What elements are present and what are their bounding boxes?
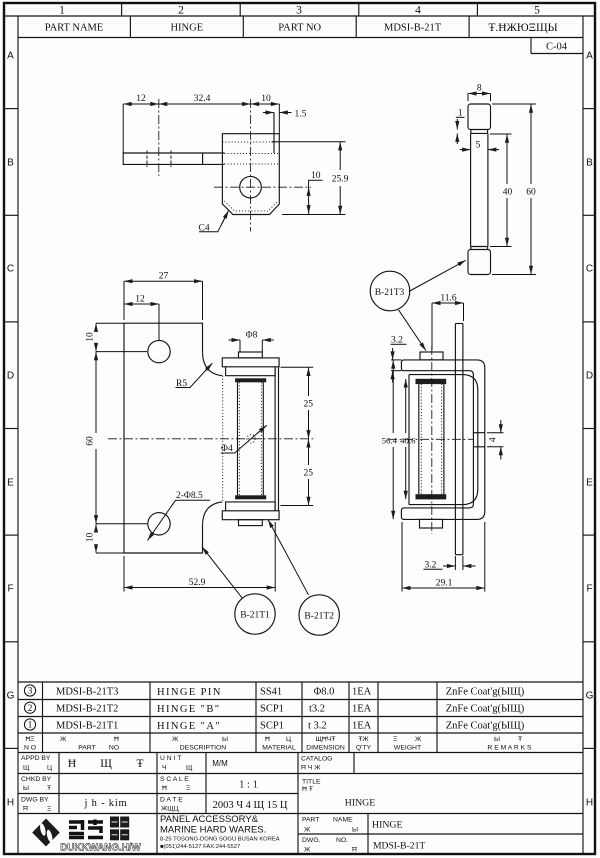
svg-text:ZnFe Coat'g(ЫЩ): ZnFe Coat'g(ЫЩ) [446,704,525,715]
svg-text:Ħ: Ħ [114,736,119,743]
dim 10 vertical (hole to bottom) [309,180,323,214]
svg-text:TITLE: TITLE [302,779,321,786]
dim 8 [467,94,469,102]
svg-text:DWG BY: DWG BY [21,797,49,804]
svg-text:CHKD BY: CHKD BY [21,776,52,783]
svg-text:F: F [7,584,13,595]
pin lower end side [420,519,443,528]
svg-text:25: 25 [304,400,314,410]
svg-text:PART NO: PART NO [278,23,321,34]
dim 3.2 top [391,359,401,361]
svg-text:E: E [7,478,14,489]
svg-text:Ч: Ч [162,765,167,772]
bottom hole ext line [96,523,147,525]
plate outline with chamfers [222,134,279,215]
svg-text:NO.: NO. [336,837,348,844]
svg-text:Ħ: Ħ [265,736,270,743]
knuckle tube walls [237,382,239,495]
leaf bend hidden line [222,376,224,502]
svg-text:D A T E: D A T E [160,797,183,804]
column ticks top strip [121,3,123,16]
pin head front [239,352,263,358]
svg-text:DIMENSION: DIMENSION [306,745,345,752]
row letters left [7,51,15,809]
svg-text:1.5: 1.5 [295,110,307,120]
dim 10 right ext line [278,104,280,134]
dim line 25.9 [339,142,341,170]
svg-text:C: C [7,264,14,275]
svg-text:NAME: NAME [333,817,353,824]
leaf outer edge left [408,375,410,505]
svg-text:29.1: 29.1 [436,579,453,589]
dim line 12 [123,103,159,105]
svg-text:Ж: Ж [304,827,311,834]
svg-text:52.9: 52.9 [189,578,206,588]
svg-text:NO: NO [109,745,119,752]
svg-text:4: 4 [415,5,421,17]
dim line 32.4 [159,103,251,105]
circled item numbers [24,685,35,696]
svg-text:8-25 TOSONG-DONG SOGU BUSAN KO: 8-25 TOSONG-DONG SOGU BUSAN KOREA [160,837,280,843]
hinge centerline [108,438,313,440]
svg-text:t3.2: t3.2 [309,704,325,715]
svg-text:PART: PART [78,745,96,752]
company logo diamond [32,819,60,847]
svg-text:8: 8 [477,84,482,94]
svg-text:ĦΞ: ĦΞ [25,736,35,743]
svg-text:ŦЖ: ŦЖ [358,736,369,743]
balloon B-21T1 [235,594,275,634]
svg-text:12: 12 [136,94,146,104]
dim 12 [124,303,159,305]
svg-text:10: 10 [86,533,96,543]
hinge B flange bottom [222,511,279,520]
svg-text:D: D [7,371,14,382]
svg-text:C: C [586,264,593,275]
dim 56.4 [392,360,394,433]
svg-text:MDSI-B-21T: MDSI-B-21T [373,841,425,852]
bend line solid at 1.5 offset [273,113,275,154]
svg-text:MDSI-B-21T: MDSI-B-21T [384,23,442,34]
svg-text:Ξ: Ξ [47,806,52,813]
svg-text:5: 5 [476,141,481,151]
svg-text:Ц: Ц [286,736,291,743]
ext line bottom for 25.9 [282,214,346,216]
svg-text:DUKKWANG.H/W: DUKKWANG.H/W [60,843,141,854]
pin axis centerline [431,346,433,534]
svg-text:HINGE PIN: HINGE PIN [157,687,222,698]
svg-text:A: A [586,51,593,62]
svg-text:S C A L E: S C A L E [160,776,189,783]
svg-text:DWG.: DWG. [302,837,321,844]
svg-text:11.6: 11.6 [440,294,457,304]
svg-text:Ξ: Ξ [186,785,191,792]
svg-text:Ξ: Ξ [393,736,398,743]
svg-text:Ħ: Ħ [68,758,76,770]
neck groove line [471,132,488,134]
svg-text:40: 40 [503,188,513,198]
dim phi8 top of pin [239,340,241,352]
bend tick on bar [202,153,204,164]
svg-text:B-21T2: B-21T2 [304,612,334,622]
svg-text:Ħ Ŧ: Ħ Ŧ [302,786,313,793]
row letters right [586,51,594,809]
hidden bend lines dotted inside plate [222,141,279,143]
svg-text:4: 4 [489,437,499,442]
svg-text:ZnFe Coat'g(ЫЩ): ZnFe Coat'g(ЫЩ) [446,687,525,698]
pin lower head [468,250,491,275]
dim 4 right [487,432,504,434]
svg-text:APPD BY: APPD BY [21,755,51,762]
shaft end line [471,246,488,248]
ext line top for 25.9 [272,141,346,143]
svg-text:Ж: Ж [60,736,67,743]
bottom fillet [203,502,223,525]
svg-text:10: 10 [311,171,321,181]
pin hidden lines in tube [238,382,240,495]
svg-text:Ħ Ч Ж: Ħ Ч Ж [301,765,321,772]
svg-text:Ж: Ж [172,736,179,743]
tube walls side [418,384,420,494]
hole horizontal centerline [214,186,311,188]
svg-text:25: 25 [304,469,314,479]
bottom mounting hole [148,513,170,535]
retaining ring top [235,378,266,382]
svg-text:B-21T1: B-21T1 [240,611,270,621]
svg-text:PART: PART [302,817,320,824]
svg-text:SCP1: SCP1 [260,704,284,715]
svg-text:ZnFe Coat'g(ЫЩ): ZnFe Coat'g(ЫЩ) [446,721,525,732]
dim 12 ext line [122,104,124,153]
svg-text:MDSI-B-21T3: MDSI-B-21T3 [56,687,118,698]
svg-text:10: 10 [86,332,96,342]
hinge B flange top [222,358,279,367]
title header band boxes [18,16,583,38]
svg-text:Ы: Ы [494,736,500,743]
dim 1.5 arrows [263,112,274,114]
knuckle curl bottom [226,502,276,511]
svg-text:F: F [586,584,592,595]
svg-text:1EA: 1EA [352,721,372,732]
dim 25 / 25 right side [281,366,314,368]
svg-text:M/M: M/M [212,759,228,768]
svg-text:5: 5 [534,5,540,17]
svg-text:Ħ: Ħ [162,785,167,792]
hinge B bracket C-profile outline [401,360,484,520]
svg-text:■(051)244-5127 FAX:244-5527: ■(051)244-5127 FAX:244-5527 [160,844,240,850]
balloon B-21T3 [370,271,410,311]
logo hangul DUKKWANG [69,820,103,838]
svg-text:1: 1 [28,721,33,731]
leader to pin head side [399,310,426,351]
svg-text:Ŧ: Ŧ [518,736,522,743]
hole vertical centerline [250,99,252,232]
dim 40.6 [405,379,407,433]
row ticks left margin [4,109,18,749]
svg-text:2: 2 [28,704,33,714]
svg-text:Φ8: Φ8 [246,331,258,341]
svg-text:U N I T: U N I T [160,755,181,762]
top mounting hole [148,340,170,362]
hinge A plate outline [124,323,203,553]
knuckle curl top [226,367,276,376]
pin end bottom front [239,520,263,526]
svg-text:1EA: 1EA [352,687,372,698]
retaining rings side [416,379,447,384]
bar hole centerline vertical [158,99,160,176]
spot weld lines right limb [473,432,484,434]
svg-text:D: D [586,371,593,382]
svg-text:N O: N O [24,745,36,752]
dim 40 [490,133,512,135]
svg-text:1EA: 1EA [352,704,372,715]
svg-text:ЖЩЦ: ЖЩЦ [161,806,179,813]
pin head side [420,352,443,360]
svg-text:HINGE "A": HINGE "A" [157,721,221,732]
hinge A leaf bar outline [123,153,224,164]
parts table grid [18,682,583,753]
svg-text:A: A [7,51,14,62]
svg-text:Щ: Щ [100,758,112,770]
top fillet R5 [203,353,223,376]
hole in plate [240,176,262,198]
C-04 box [531,38,583,54]
svg-text:10: 10 [261,94,271,104]
hinge B plate edge-on vertical [454,324,456,555]
svg-text:Ŧ: Ŧ [136,758,143,770]
dim line 10 [251,103,280,105]
svg-text:Φ8.0: Φ8.0 [314,687,335,698]
svg-text:ЩĦЧŦ: ЩĦЧŦ [316,736,336,743]
svg-text:PART NAME: PART NAME [45,23,104,34]
svg-text:B-21T3: B-21T3 [375,288,405,298]
pin head [468,104,491,130]
small hidden circle at center [247,435,255,443]
svg-text:25.9: 25.9 [332,175,349,185]
hinge A leaf wrapped inside bracket [409,375,478,505]
svg-text:3: 3 [296,5,302,17]
address block [160,814,280,850]
dim 60 [492,103,536,105]
svg-text:1: 1 [59,5,65,17]
svg-text:SCP1: SCP1 [260,721,284,732]
svg-text:H: H [586,798,593,809]
svg-text:MARINE HARD WARES.: MARINE HARD WARES. [160,825,266,836]
svg-text:Ы: Ы [352,827,358,834]
title block grid [18,753,583,855]
inner frame right vertical [582,16,584,854]
logo block squares [110,817,119,828]
svg-text:SS41: SS41 [260,687,282,698]
svg-text:56.4: 56.4 [382,435,398,445]
svg-text:2-Φ8.5: 2-Φ8.5 [176,491,203,501]
hidden inner contour dotted near bottom [225,201,278,211]
svg-text:HINGE: HINGE [345,798,375,809]
svg-text:C-04: C-04 [546,42,568,53]
svg-text:HINGE: HINGE [372,820,402,831]
svg-text:Ħ: Ħ [23,806,28,813]
parts header labels [24,736,532,752]
dim 11.6 [431,303,433,350]
svg-text:E: E [586,478,593,489]
leader to pin detail [409,260,466,291]
svg-text:t 3.2: t 3.2 [308,721,327,732]
svg-text:1 : 1: 1 : 1 [239,780,258,791]
svg-text:HINGE "B": HINGE "B" [157,704,220,715]
svg-text:32.4: 32.4 [194,94,211,104]
svg-text:Ħ: Ħ [352,847,357,854]
svg-text:Ŧ: Ŧ [47,785,51,792]
sign labels [21,755,358,854]
svg-text:Ы: Ы [222,736,228,743]
left chain dim 10/60/10 [96,322,124,324]
balloon B-21T2 [299,595,339,635]
row ticks right margin [583,109,595,749]
retaining ring bottom [235,495,266,499]
svg-text:G: G [586,691,594,702]
svg-text:Щ: Щ [23,765,30,772]
svg-text:B: B [586,158,593,169]
top hole ext lines [96,351,147,353]
svg-text:60: 60 [526,188,536,198]
svg-text:R E M A R K S: R E M A R K S [487,745,532,752]
svg-text:12: 12 [135,295,145,305]
dim 29.1 [401,522,403,592]
svg-text:PANEL ACCESSORY&: PANEL ACCESSORY& [160,814,259,825]
pin hidden lines side [420,384,422,494]
hinge B plate edge behind [274,367,276,511]
svg-text:60: 60 [86,436,96,446]
svg-text:Ж: Ж [304,847,311,854]
svg-text:j h - kim: j h - kim [83,798,127,809]
svg-text:HINGE: HINGE [170,23,203,34]
svg-text:27: 27 [159,272,169,282]
svg-text:CATALOG: CATALOG [301,756,332,763]
svg-text:Ŧ.ĦЖЮΞЩЫ: Ŧ.ĦЖЮΞЩЫ [488,22,557,34]
svg-text:MDSI-B-21T2: MDSI-B-21T2 [56,704,118,715]
dim 27 [124,280,203,282]
svg-text:H: H [7,798,14,809]
dim 52.9 [123,556,125,592]
svg-text:B: B [7,158,14,169]
svg-text:40.6: 40.6 [400,435,416,445]
svg-text:MATERIAL: MATERIAL [262,745,296,752]
svg-text:Ж: Ж [415,736,422,743]
pin shaft [470,133,472,246]
inner frame left vertical [17,16,19,854]
svg-text:WEIGHT: WEIGHT [394,745,421,752]
svg-text:Ц: Ц [47,765,52,772]
svg-text:Q'TY: Q'TY [356,745,372,752]
svg-text:2003 Ч 4 Щ 15 Ц: 2003 Ч 4 Щ 15 Ц [213,800,288,811]
top strip line [4,15,595,17]
svg-text:3: 3 [28,687,33,697]
svg-text:MDSI-B-21T1: MDSI-B-21T1 [56,721,118,732]
svg-text:2: 2 [178,5,184,17]
svg-text:Ы: Ы [23,785,29,792]
centerline horizontal [388,438,474,440]
svg-text:G: G [7,691,15,702]
svg-text:DESCRIPTION: DESCRIPTION [180,745,227,752]
svg-text:Щ: Щ [186,765,193,772]
hole hidden lines on bar [146,151,148,168]
